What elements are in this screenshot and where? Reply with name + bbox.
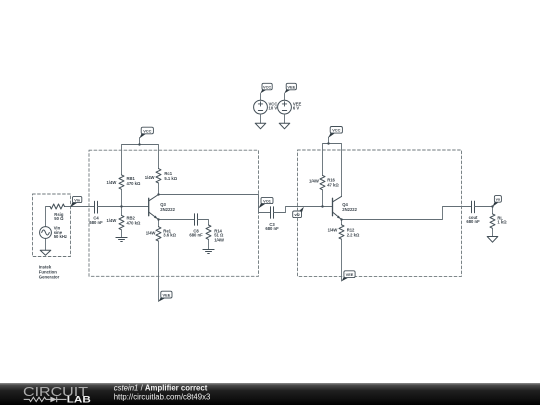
flag vi2 xyxy=(293,207,304,218)
svg-text:2.2 kΩ: 2.2 kΩ xyxy=(347,232,360,237)
svg-text:1/4W: 1/4W xyxy=(146,231,156,236)
flag VEE (stage 2) xyxy=(342,271,356,281)
svg-text:LAB: LAB xyxy=(67,394,91,404)
svg-text:VEE: VEE xyxy=(287,84,295,89)
svg-text:6 V: 6 V xyxy=(293,106,299,111)
stage 2 enclosure xyxy=(298,150,462,276)
ground (RB2, earth) xyxy=(116,238,127,242)
svg-text:vo: vo xyxy=(496,197,501,202)
ground (source VCC) xyxy=(255,123,266,129)
source VEE 4 V xyxy=(278,83,302,123)
svg-text:1/4W: 1/4W xyxy=(214,237,224,242)
source Vin (sine) xyxy=(40,227,52,239)
svg-text:1/4W: 1/4W xyxy=(328,228,338,233)
svg-text:VO1: VO1 xyxy=(263,198,272,203)
svg-text:470 kΩ: 470 kΩ xyxy=(127,181,141,186)
wire emitter Q4 down xyxy=(341,220,343,225)
flag VCC (stage 1) xyxy=(139,127,153,144)
stage 1 enclosure xyxy=(89,150,259,276)
function generator enclosure xyxy=(33,194,71,257)
resistor RB1 xyxy=(119,175,124,189)
resistor RB2 xyxy=(119,215,124,229)
wire collector output to C3 xyxy=(159,195,271,213)
svg-text:1/4W: 1/4W xyxy=(107,180,117,185)
wire VCC rail stage 1 xyxy=(122,145,159,175)
wire C8 to R14 xyxy=(198,220,209,226)
label Instek Function Generator xyxy=(39,264,60,279)
svg-text:http://circuitlab.com/c8t49x3: http://circuitlab.com/c8t49x3 xyxy=(114,393,211,402)
svg-text:2N2222: 2N2222 xyxy=(342,207,357,212)
transistor Q4 2N2222 xyxy=(332,198,334,215)
wire emitter Q4 to cout xyxy=(342,207,472,220)
flag VEE (stage 1) xyxy=(159,291,173,301)
capacitor C8 xyxy=(195,214,198,226)
svg-text:2N2222: 2N2222 xyxy=(160,207,175,212)
svg-text:680 nF: 680 nF xyxy=(265,226,279,231)
flag VCC (stage 2) xyxy=(328,127,342,144)
wire RB2 to ground xyxy=(121,230,123,238)
svg-text:1 kΩ: 1 kΩ xyxy=(497,220,507,225)
wire C3 to stage 2 base xyxy=(274,207,333,213)
ground (RL) xyxy=(487,237,498,243)
svg-text:680 nF: 680 nF xyxy=(89,220,103,225)
wire RL to ground xyxy=(492,228,494,236)
footer logo CIRCUIT LAB xyxy=(23,384,91,404)
capacitor cout xyxy=(472,201,475,213)
wire Re1 to VEE flag xyxy=(158,241,160,301)
svg-text:1/4W: 1/4W xyxy=(107,218,117,223)
svg-text:1/4W: 1/4W xyxy=(309,179,319,184)
ground (function generator) xyxy=(40,250,51,255)
wire emitter Q3 branch down xyxy=(158,220,160,227)
flag VO1 xyxy=(259,197,273,208)
wire VCC rail stage 2 xyxy=(323,144,342,197)
capacitor C4 xyxy=(95,201,98,213)
svg-text:VEE: VEE xyxy=(163,292,171,297)
ground (R14, earth) xyxy=(203,250,214,254)
svg-text:VCC: VCC xyxy=(332,128,340,133)
wire R14 to ground xyxy=(208,239,210,249)
wire (function generator internal) xyxy=(46,207,95,251)
node junction dots xyxy=(120,142,493,220)
svg-text:VCC: VCC xyxy=(263,84,271,89)
footer title text xyxy=(114,383,211,401)
resistor R16 xyxy=(320,175,325,189)
svg-text:3.6 kΩ: 3.6 kΩ xyxy=(163,233,176,238)
transistor Q3 2N2222 xyxy=(148,198,150,215)
svg-text:50 Ω: 50 Ω xyxy=(54,216,64,221)
flag Vin xyxy=(70,196,82,207)
source VCC 10 V xyxy=(254,83,278,123)
svg-text:47 kΩ: 47 kΩ xyxy=(327,182,339,187)
wire R12 to VEE flag xyxy=(341,239,343,281)
resistor Re1 xyxy=(156,227,161,241)
wire R16 to base node xyxy=(322,190,324,207)
svg-text:680 nF: 680 nF xyxy=(189,233,203,238)
resistor R14 xyxy=(206,225,211,239)
svg-text:50 kHz: 50 kHz xyxy=(54,234,67,239)
wire cout to vo node xyxy=(475,207,493,214)
resistor R12 xyxy=(339,225,344,239)
svg-text:5.1 kΩ: 5.1 kΩ xyxy=(164,176,177,181)
svg-text:680 nF: 680 nF xyxy=(466,219,480,224)
resistor Rc1 xyxy=(156,169,161,183)
footer bar xyxy=(0,383,540,405)
wire emitter to C8 xyxy=(159,219,195,221)
resistor Rsig xyxy=(50,204,64,209)
wire RB1 to base node xyxy=(121,189,123,215)
svg-text:VCC: VCC xyxy=(143,128,151,133)
svg-text:cstein1 / Amplifier correct: cstein1 / Amplifier correct xyxy=(114,383,208,392)
svg-text:10 V: 10 V xyxy=(269,106,278,111)
wire C4 to base xyxy=(98,206,149,208)
flag vo xyxy=(493,196,502,207)
svg-text:470 kΩ: 470 kΩ xyxy=(127,220,141,225)
wire Rc1 to collector xyxy=(158,183,160,195)
svg-text:Generator: Generator xyxy=(39,275,60,280)
svg-text:Vin: Vin xyxy=(74,197,81,202)
svg-text:1/4W: 1/4W xyxy=(145,175,155,180)
ground (source VEE) xyxy=(279,123,290,129)
capacitor C3 xyxy=(271,207,274,219)
svg-text:VEE: VEE xyxy=(346,272,354,277)
resistor RL xyxy=(490,214,495,228)
